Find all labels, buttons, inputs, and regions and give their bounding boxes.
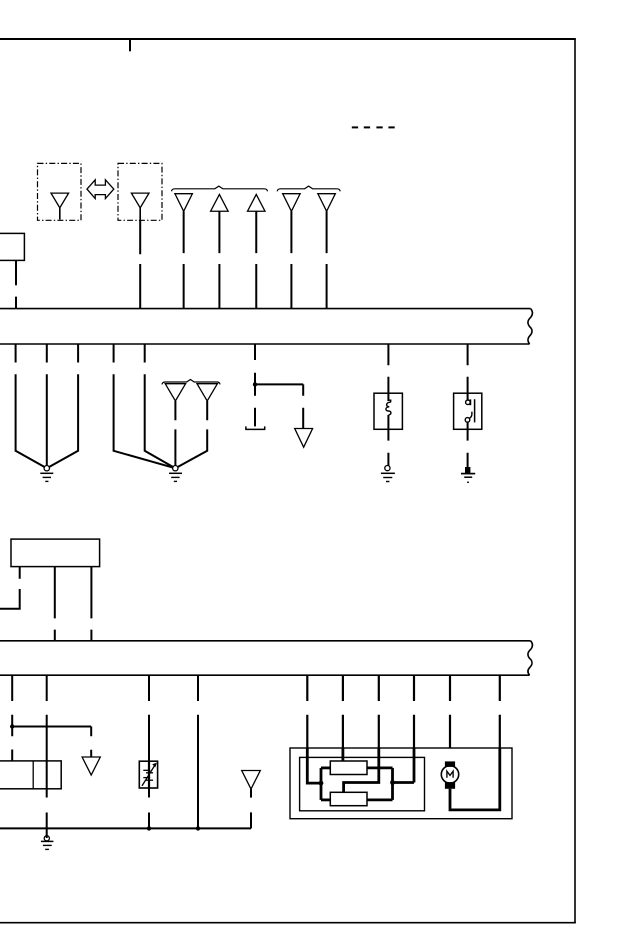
wire bus2 to resistor pin 4 <box>413 675 415 748</box>
ground G4 (case ground) <box>461 467 475 482</box>
node dot resistor network right <box>390 780 395 785</box>
wire bus2 straight to bottom rail <box>197 675 199 828</box>
antenna triangle down E <box>318 194 336 212</box>
switch S1 contacts <box>465 399 474 422</box>
thermistor RT1 <box>142 761 157 788</box>
resistor R1 <box>330 761 367 775</box>
floating ground triangle I <box>82 757 100 775</box>
wire relay coil to ground G3 <box>387 415 389 466</box>
resistor block inner box <box>300 757 425 810</box>
frame right border line <box>574 39 576 923</box>
wire from triangle A to bus 1 <box>183 211 185 308</box>
bus bar 1 (upper wire harness) <box>0 309 532 344</box>
wire control unit pin 1 with left turn <box>0 567 21 609</box>
wire bus1 to ground G1 branch c <box>49 344 79 467</box>
antenna symbol in right dash-dot box <box>131 193 149 220</box>
sensor box bottom left <box>0 761 61 789</box>
brace over glass antenna pair <box>162 380 220 385</box>
ground G1 <box>40 466 53 482</box>
wire control unit pin 2 to bus 2 <box>54 567 56 641</box>
relay coil L1 <box>386 400 391 415</box>
node dot rail-thermistor <box>147 826 151 830</box>
wire bus1 to ground G1 branch a <box>16 344 45 467</box>
glass antenna triangle F <box>165 384 185 401</box>
antenna symbol in left dash-dot box <box>51 193 69 220</box>
wire from connector block to bus 1 <box>15 260 17 308</box>
antenna triangle down D <box>283 194 301 212</box>
wire bus2 to resistor pin 3 <box>378 675 380 748</box>
wire thermistor to bottom rail <box>148 788 150 828</box>
wire junction to floating ground stub <box>12 727 91 758</box>
node junction dot lower left <box>10 724 14 728</box>
bus bar 2 (lower wire harness) <box>0 641 532 675</box>
wire bus2 to resistor pin 1 <box>306 675 308 748</box>
resistor R2 <box>330 792 367 805</box>
wire bus2 to motor pin <box>449 675 451 748</box>
antenna triangle J on rail end <box>250 789 252 798</box>
frame top border line <box>0 38 576 40</box>
ground G5 <box>41 836 54 850</box>
wire from triangle E to bus 1 <box>326 211 328 308</box>
ground G2 <box>169 466 182 482</box>
sensor box divider <box>32 761 34 789</box>
double-headed arrow (radio wave link) <box>87 180 114 199</box>
motor brush bottom <box>445 782 455 789</box>
motor brush top <box>445 761 455 767</box>
glass antenna triangle G <box>197 384 217 401</box>
resistor network wiring <box>307 748 414 800</box>
switch box <box>454 393 482 429</box>
wire bus1 to ground G2 branch b <box>145 344 174 467</box>
wire from triangle D to bus 1 <box>290 211 292 308</box>
wire from triangle G to ground G2 <box>177 401 207 467</box>
antenna triangle down A <box>175 194 193 212</box>
wire bus1 shield branch <box>254 344 256 426</box>
floating ground triangle H <box>295 429 313 448</box>
wire switch to ground G4 <box>467 422 469 467</box>
arrow triangle up C <box>248 194 266 211</box>
relay coil box <box>374 393 402 429</box>
shield terminal bracket <box>246 426 265 429</box>
wire from triangle C to bus 1 <box>255 211 257 308</box>
wire bus2 to thermistor <box>148 675 150 761</box>
antenna triangle J <box>242 771 261 790</box>
thermistor box <box>139 761 157 788</box>
tick mark on top border <box>129 39 131 51</box>
wire bus2 to resistor pin 2 <box>342 675 344 748</box>
blower unit outer box <box>290 748 512 819</box>
wire bus1 to ground G2 branch a <box>114 344 173 468</box>
wire from right dash-dot box to bus 1 <box>139 220 141 308</box>
node dot resistor network left <box>319 781 324 786</box>
wire bus1 to switch <box>467 344 469 400</box>
motor return loop wire <box>450 748 500 810</box>
motor M1 label <box>447 771 453 778</box>
wire shield branch to right stub <box>255 384 303 428</box>
ground G3 <box>381 466 395 482</box>
wire bus1 to ground G1 branch b <box>46 344 48 465</box>
wire control unit pin 3 to bus 2 <box>90 567 92 641</box>
frame bottom border line <box>0 922 576 924</box>
wire bus2 to connector node <box>11 675 13 761</box>
dashed separator marks <box>352 126 395 128</box>
dash-dot box: antenna unit left <box>38 163 82 220</box>
motor M1 circle <box>441 766 458 783</box>
brace over triangle group 1 <box>172 186 268 191</box>
wire from triangle B to bus 1 <box>218 211 220 308</box>
node junction dot on shield branch <box>253 382 257 386</box>
wire bus1 to relay coil <box>387 344 389 401</box>
wire bus2 through sensor box to ground G5 <box>46 675 48 838</box>
arrow triangle up B <box>211 194 229 211</box>
wire bus2 to motor return pin <box>499 675 501 748</box>
connector block at left edge <box>0 233 24 260</box>
brace over triangle group 2 <box>277 186 340 191</box>
bottom ground rail wire <box>0 812 251 828</box>
control unit box <box>11 539 100 567</box>
node dot rail-wire <box>196 826 200 830</box>
wire from triangle F to ground G2 <box>174 401 176 465</box>
dash-dot box: antenna unit right <box>118 163 162 220</box>
